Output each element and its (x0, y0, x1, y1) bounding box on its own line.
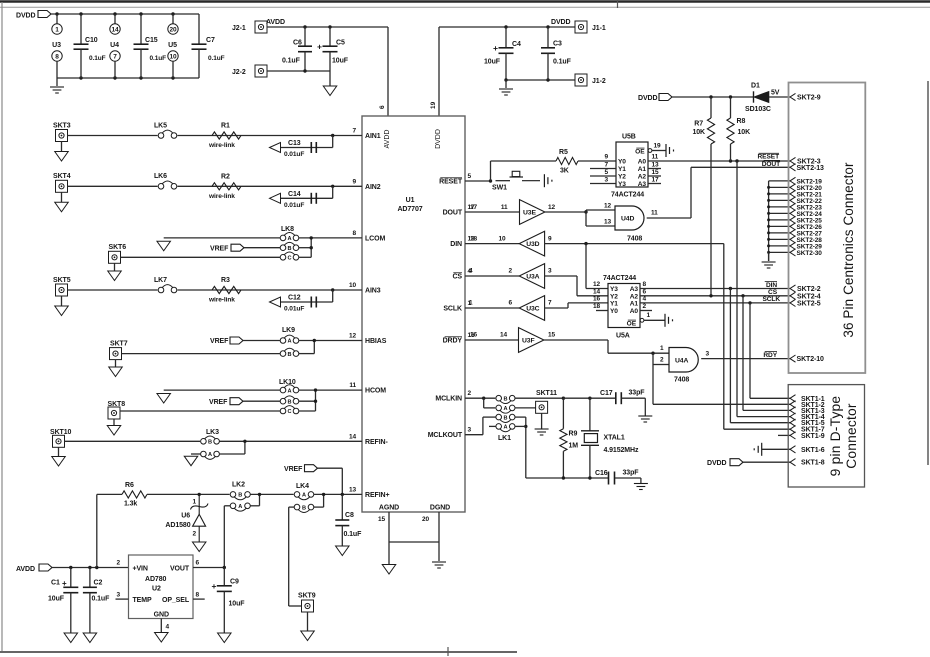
svg-text:12: 12 (349, 333, 357, 340)
svg-text:2: 2 (468, 390, 472, 397)
node SKT2-20 (769, 186, 790, 188)
svg-text:14: 14 (111, 27, 119, 34)
svg-text:33pF: 33pF (629, 390, 646, 397)
node SKT2-19 (769, 180, 790, 182)
wire VREF to LK9-A (243, 340, 280, 342)
svg-text:7: 7 (352, 128, 356, 135)
svg-text:AIN1: AIN1 (365, 133, 381, 140)
svg-text:U6: U6 (181, 513, 190, 520)
svg-text:U3E: U3E (523, 210, 536, 217)
wire RESET net to SKT2-3 (648, 160, 790, 162)
node SKT2-22 (769, 199, 790, 201)
wire U4A output RDY to SKT2-10 (701, 358, 790, 360)
svg-text:SKT2-10: SKT2-10 (797, 356, 825, 363)
wire AVDD to U2 +VIN (52, 567, 129, 569)
svg-text:SKT2-2: SKT2-2 (797, 286, 821, 293)
wire VOUT to C9/LK2-A (193, 567, 224, 569)
svg-text:4: 4 (166, 624, 170, 631)
node SKT2-27 (769, 232, 790, 234)
node SKT2-30 (769, 251, 790, 253)
wire AVDD from J2-1 to U1 AVDD (267, 26, 388, 28)
svg-text:DVDD: DVDD (638, 95, 657, 102)
page border top (0, 0, 930, 3)
ground (C2) (83, 633, 97, 643)
svg-text:AIN2: AIN2 (365, 184, 381, 191)
wire VREF to REFIN+ node (318, 467, 343, 469)
wire DVDD from U1 DVDD to J1-1 (438, 27, 440, 116)
svg-text:VOUT: VOUT (170, 565, 190, 572)
capacitor C17 33pF (615, 392, 617, 404)
svg-text:Y3: Y3 (610, 286, 618, 293)
svg-text:DRDY: DRDY (443, 338, 463, 345)
svg-text:REFIN-: REFIN- (365, 439, 389, 446)
svg-text:1M: 1M (569, 443, 579, 450)
node SKT2-28 (769, 238, 790, 240)
svg-text:17: 17 (470, 204, 478, 211)
wire SKT7 to LK9-B (122, 353, 281, 355)
svg-text:0.1uF: 0.1uF (92, 596, 111, 603)
terminal (SW1 return) (543, 174, 545, 187)
wire J2-2 ground return (267, 70, 330, 72)
wire SCLK branch to SKT1-1 (749, 303, 751, 398)
node SKT1-4 (790, 413, 796, 420)
wire U3E output to U4D inputs (545, 211, 586, 213)
svg-text:+: + (493, 43, 498, 53)
wire LK10 output to U1 HCOM (299, 389, 362, 391)
svg-text:DOUT: DOUT (443, 210, 463, 217)
svg-text:MCLKOUT: MCLKOUT (428, 432, 463, 439)
svg-text:15: 15 (548, 332, 556, 339)
crystal XTAL1 4.9152MHz (589, 398, 591, 431)
svg-text:DVDD: DVDD (435, 129, 442, 149)
svg-text:8: 8 (352, 230, 356, 237)
gate U4A 7408 AND (669, 348, 698, 373)
capacitor C10 (80, 14, 82, 44)
U3 power pins (56, 14, 58, 24)
svg-text:wire-link: wire-link (208, 297, 235, 304)
wire R6 to LK2-B / reference node (147, 493, 230, 495)
svg-text:4.9152MHz: 4.9152MHz (604, 447, 639, 454)
capacitor C7 (198, 14, 200, 44)
wire LK8 output to U1 LCOM (299, 237, 362, 239)
resistor R7 10K (710, 97, 712, 118)
wire DVDD to D1 (672, 96, 754, 98)
wire DOUT/DIN chip branch to SKT1-7 (724, 428, 790, 430)
svg-text:1: 1 (192, 499, 196, 506)
svg-text:3: 3 (116, 592, 120, 599)
capacitor C1 (polarized) (70, 568, 72, 588)
svg-text:6: 6 (643, 288, 647, 295)
svg-text:18: 18 (470, 236, 478, 243)
svg-text:VREF: VREF (209, 399, 228, 406)
capacitor C8 0.1uF (341, 494, 343, 519)
svg-text:AD1580: AD1580 (165, 522, 190, 529)
svg-text:18: 18 (593, 303, 601, 310)
svg-text:AVDD: AVDD (16, 566, 35, 573)
svg-text:13: 13 (604, 219, 612, 226)
svg-text:A1: A1 (630, 300, 639, 307)
svg-text:U3: U3 (52, 42, 61, 49)
svg-text:SD103C: SD103C (745, 106, 771, 113)
page border bottom (0, 651, 517, 653)
node SKT2-24 (769, 212, 790, 214)
svg-text:U5A: U5A (616, 333, 630, 340)
svg-text:DVDD: DVDD (551, 19, 570, 26)
svg-text:6: 6 (508, 300, 512, 307)
svg-text:U4: U4 (110, 42, 119, 49)
svg-text:9: 9 (604, 154, 608, 161)
svg-text:J1-2: J1-2 (592, 78, 606, 85)
svg-text:U5B: U5B (622, 134, 636, 141)
wire DGND (438, 512, 440, 561)
svg-text:SCLK: SCLK (443, 306, 462, 313)
svg-text:A: A (208, 452, 212, 458)
svg-text:C3: C3 (553, 41, 562, 48)
wire AGND (388, 512, 390, 565)
diode U6 AD1580 shunt reference (198, 494, 200, 514)
svg-text:SKT10: SKT10 (50, 429, 71, 436)
svg-text:U5: U5 (168, 42, 177, 49)
gate U4D 7408 AND (615, 206, 644, 230)
svg-text:wire-link: wire-link (208, 142, 235, 149)
svg-text:Y2: Y2 (618, 174, 626, 181)
svg-text:10uF: 10uF (484, 59, 501, 66)
node SKT1-5 (790, 419, 796, 426)
svg-text:R5: R5 (559, 149, 568, 156)
svg-text:DVDD: DVDD (707, 460, 726, 467)
ground (LK10-A) (164, 389, 281, 391)
wire J1-2 ground return (506, 79, 575, 81)
svg-text:LK9: LK9 (282, 327, 295, 334)
svg-text:DVDD: DVDD (16, 13, 35, 20)
svg-text:20: 20 (169, 27, 177, 34)
ground (U3 rail) (56, 78, 58, 86)
svg-text:C13: C13 (288, 140, 301, 147)
svg-text:SKT11: SKT11 (536, 390, 557, 397)
svg-text:A3: A3 (630, 286, 639, 293)
capacitor C16 33pF (608, 472, 610, 485)
svg-text:0.01uF: 0.01uF (284, 306, 304, 313)
connector pin J1-2 (575, 74, 587, 86)
svg-text:wire-link: wire-link (208, 193, 235, 200)
svg-text:8: 8 (55, 54, 59, 61)
svg-text:10uF: 10uF (332, 58, 349, 65)
svg-text:0.1uF: 0.1uF (282, 58, 301, 65)
svg-text:U3F: U3F (522, 338, 535, 345)
svg-text:13: 13 (652, 161, 660, 168)
svg-text:RESET: RESET (758, 154, 780, 161)
svg-text:5: 5 (604, 169, 608, 176)
page border right segment (927, 81, 929, 465)
wire LK1 to crystal bottom (515, 416, 526, 418)
svg-text:7408: 7408 (627, 236, 642, 243)
wire ground rail bottom (57, 77, 199, 79)
wire RESET branch to SKT1-4 (736, 161, 738, 417)
svg-text:SKT6: SKT6 (109, 244, 127, 251)
node SKT2-23 (769, 206, 790, 208)
svg-text:13: 13 (349, 487, 357, 494)
svg-text:11: 11 (652, 154, 659, 161)
capacitor C14 0.01uF (331, 185, 334, 188)
svg-text:Connector: Connector (844, 403, 859, 469)
svg-text:DGND: DGND (430, 505, 450, 512)
svg-text:A2: A2 (630, 293, 639, 300)
wire R7 to CS net (710, 144, 712, 296)
svg-text:C6: C6 (293, 40, 302, 47)
svg-text:14: 14 (349, 433, 357, 440)
ground (SKT7) (115, 360, 117, 367)
svg-text:AVDD: AVDD (266, 19, 285, 26)
wire SKT6 to LK8-C (121, 256, 281, 258)
svg-text:0.1uF: 0.1uF (553, 59, 572, 66)
svg-text:20: 20 (422, 516, 430, 523)
svg-text:VREF: VREF (284, 466, 303, 473)
svg-text:REFIN+: REFIN+ (365, 492, 390, 499)
ground (SKT11) (541, 413, 543, 428)
ground (SKT6) (114, 263, 116, 271)
svg-text:3: 3 (604, 176, 608, 183)
svg-text:C7: C7 (206, 37, 215, 44)
wire DIN branch down to SKT1-7 (723, 244, 725, 430)
ground (LK8-A) (164, 237, 281, 239)
wire U4A input to SKT1-2 (652, 365, 654, 405)
svg-text:AGND: AGND (379, 505, 399, 512)
ground (C5/J2-2) (329, 71, 331, 86)
terminal (U5A OE) (664, 314, 666, 327)
ground (SKT9) (307, 612, 309, 631)
svg-text:7: 7 (113, 54, 117, 61)
svg-text:HCOM: HCOM (365, 388, 386, 395)
svg-text:A: A (238, 504, 242, 510)
svg-text:J2-2: J2-2 (232, 69, 246, 76)
ground (SKT3) (61, 142, 63, 152)
svg-text:8: 8 (196, 592, 200, 599)
node SKT1-3 (790, 407, 796, 414)
svg-text:DOUT: DOUT (762, 161, 780, 168)
svg-text:R1: R1 (221, 123, 230, 130)
svg-text:LK8: LK8 (281, 226, 294, 233)
svg-text:Y1: Y1 (610, 300, 618, 307)
svg-text:0.01uF: 0.01uF (284, 202, 304, 209)
wire U1 MCLKOUT to LK1 (465, 434, 483, 436)
wire LK4-B to SKT9 (289, 506, 295, 508)
svg-text:10: 10 (169, 54, 177, 61)
ground (C17) (638, 415, 652, 417)
wire SCLK net to SKT2-5 (640, 302, 790, 304)
svg-text:11: 11 (501, 204, 508, 211)
wire LK9 output to U1 HBIAS (299, 340, 362, 342)
svg-text:U3A: U3A (526, 274, 539, 281)
capacitor C3 (547, 27, 549, 48)
svg-text:R7: R7 (694, 121, 703, 128)
svg-text:Y1: Y1 (618, 166, 626, 173)
svg-text:A1: A1 (638, 166, 647, 173)
node SKT1-2 (790, 401, 796, 408)
svg-text:U2: U2 (152, 586, 161, 593)
svg-text:4: 4 (469, 268, 473, 275)
svg-text:16: 16 (470, 332, 478, 339)
svg-text:A: A (288, 388, 292, 394)
svg-text:LK7: LK7 (154, 277, 167, 284)
wire DIN(PC) branch to SKT1-5 (729, 289, 731, 423)
wire LK3 output to U1 REFIN- (219, 453, 245, 455)
svg-text:74ACT244: 74ACT244 (611, 192, 644, 199)
wire VREF to LK10-B (243, 400, 280, 402)
wire SKT3 to R1 (68, 135, 363, 137)
wire LK2 outputs join (250, 493, 294, 495)
ground (U6) (192, 542, 206, 552)
capacitor C15 (140, 14, 142, 44)
svg-text:C2: C2 (94, 580, 103, 587)
svg-text:A: A (288, 339, 292, 345)
terminal (U5B OE) (665, 144, 667, 157)
wire LK4 to U1 REFIN+ (314, 493, 362, 495)
svg-text:CS: CS (768, 289, 778, 296)
svg-text:0.1uF: 0.1uF (89, 55, 106, 62)
wire SKT5 to R3 (68, 289, 363, 291)
svg-text:Y2: Y2 (610, 293, 618, 300)
ground (C8) (336, 546, 350, 556)
svg-text:SKT9: SKT9 (298, 593, 316, 600)
svg-text:C4: C4 (512, 41, 521, 48)
U4 power pins (114, 14, 116, 24)
U5 power pins (172, 14, 174, 24)
svg-text:R2: R2 (221, 173, 230, 180)
node SKT2-5 (790, 299, 796, 306)
svg-text:2: 2 (643, 303, 647, 310)
svg-text:RESET: RESET (439, 179, 463, 186)
svg-text:12: 12 (548, 204, 556, 211)
svg-text:1.3k: 1.3k (124, 501, 137, 508)
svg-text:10: 10 (349, 282, 357, 289)
svg-text:0.01uF: 0.01uF (284, 151, 304, 158)
resistor R8 10K (730, 97, 732, 118)
svg-text:B: B (503, 415, 507, 421)
buffer U3E (465, 211, 520, 213)
svg-text:XTAL1: XTAL1 (604, 435, 625, 442)
svg-text:U4D: U4D (621, 216, 634, 223)
svg-text:10uF: 10uF (48, 596, 65, 603)
svg-text:SKT1-8: SKT1-8 (801, 460, 825, 467)
svg-text:Y3: Y3 (618, 181, 626, 188)
svg-text:OE: OE (627, 321, 637, 328)
wire U3D input from U5A Y3 (545, 243, 724, 245)
svg-text:VREF: VREF (210, 338, 229, 345)
resistor R2 wire-link (212, 183, 241, 190)
svg-text:16: 16 (593, 295, 601, 302)
node SKT2-13 (790, 164, 796, 171)
capacitor C6 (304, 27, 306, 46)
ground (C9) (218, 633, 232, 643)
svg-text:SKT5: SKT5 (53, 277, 71, 284)
svg-text:B: B (302, 505, 306, 511)
buffer U3C (465, 307, 519, 309)
svg-text:B: B (503, 396, 507, 402)
svg-text:R3: R3 (221, 277, 230, 284)
svg-text:U3C: U3C (526, 306, 539, 313)
ground (U2 GND) (155, 633, 169, 643)
svg-text:LK5: LK5 (154, 122, 167, 129)
resistor R3 wire-link (212, 286, 241, 293)
svg-text:B: B (288, 352, 292, 358)
svg-text:15: 15 (378, 516, 386, 523)
wire LK1 to crystal top (515, 397, 563, 399)
resistor R9 1M (562, 398, 564, 429)
ground (SKT5) (61, 296, 63, 306)
svg-text:3: 3 (706, 351, 710, 358)
svg-text:RDY: RDY (763, 352, 777, 359)
svg-text:TEMP: TEMP (133, 597, 152, 604)
ground (C4) (505, 80, 507, 88)
svg-text:12: 12 (604, 203, 612, 210)
svg-text:DIN: DIN (766, 282, 777, 289)
capacitor C9 (polarized) (223, 568, 225, 586)
svg-text:C17: C17 (600, 390, 613, 397)
buffer U5A 74ACT244 (608, 284, 640, 328)
ground (C16) (634, 483, 648, 485)
svg-text:A0: A0 (638, 159, 647, 166)
node SKT1-7 (790, 426, 796, 433)
svg-text:SKT3: SKT3 (53, 122, 71, 129)
wire U3A input from U5A Y2 (545, 275, 577, 277)
buffer U3D (465, 243, 519, 245)
svg-text:Y0: Y0 (610, 308, 618, 315)
svg-text:3: 3 (468, 427, 472, 434)
svg-text:J1-1: J1-1 (592, 25, 606, 32)
svg-text:+: + (317, 42, 322, 52)
ground (SKT8) (113, 419, 115, 426)
svg-text:LCOM: LCOM (365, 235, 385, 242)
capacitor C12 0.01uF (331, 288, 334, 291)
svg-text:C16: C16 (595, 470, 608, 477)
svg-text:14: 14 (500, 332, 508, 339)
svg-text:9: 9 (352, 178, 356, 185)
svg-text:10uF: 10uF (229, 601, 246, 608)
ground (C1) (64, 633, 78, 643)
resistor R5 3K (556, 157, 578, 164)
svg-text:R6: R6 (125, 482, 134, 489)
svg-text:SKT2-30: SKT2-30 (797, 250, 823, 257)
svg-text:33pF: 33pF (623, 469, 640, 476)
ground (SKT4) (61, 192, 63, 202)
wire R5 to U5B Y0 (578, 160, 616, 162)
svg-text:GND: GND (154, 612, 169, 619)
svg-text:C5: C5 (336, 40, 345, 47)
svg-text:0.1uF: 0.1uF (208, 55, 225, 62)
svg-text:C: C (288, 409, 292, 415)
node SKT1-9 stub (778, 434, 790, 436)
svg-text:J2-1: J2-1 (232, 25, 246, 32)
svg-text:3: 3 (548, 268, 552, 275)
node SKT2-21 (769, 193, 790, 195)
svg-text:SKT2-5: SKT2-5 (797, 300, 821, 307)
wire DVDD rail top (51, 13, 199, 15)
svg-text:6: 6 (196, 560, 200, 567)
svg-text:B: B (238, 493, 242, 499)
svg-text:SW1: SW1 (492, 185, 507, 192)
svg-text:MCLKIN: MCLKIN (435, 396, 462, 403)
svg-text:C12: C12 (288, 295, 301, 302)
svg-text:CS: CS (452, 274, 462, 281)
svg-text:SKT1-6: SKT1-6 (801, 447, 825, 454)
terminal (SKT1-6 ground) (761, 443, 763, 456)
svg-text:A: A (288, 236, 292, 242)
svg-text:D1: D1 (751, 83, 760, 90)
svg-text:3K: 3K (560, 168, 569, 175)
svg-text:10: 10 (498, 236, 506, 243)
svg-text:C15: C15 (145, 37, 158, 44)
svg-text:U3D: U3D (526, 241, 539, 248)
